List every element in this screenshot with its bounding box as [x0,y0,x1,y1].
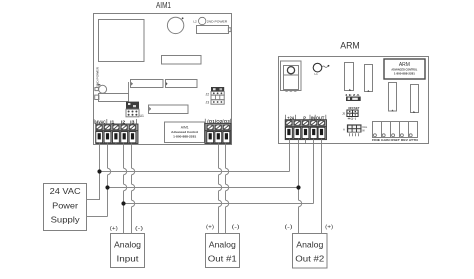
svg-text:U1: U1 [140,114,144,118]
svg-text:Analog: Analog [209,240,236,250]
wire I2 to Analog Input (+) [124,145,127,234]
terminal TB1 I1 [112,125,119,143]
svg-text:2ND POWER: 2ND POWER [95,67,99,87]
svg-text:24 VAC: 24 VAC [50,186,81,196]
transistor Q1 heatsink [281,61,302,91]
svg-text:J2: J2 [206,92,210,96]
junction dot D3 [121,201,125,205]
svg-text:ADVANCED CONTROL: ADVANCED CONTROL [391,67,417,71]
junction dot D1 [97,169,101,173]
relay K3 horizontal [166,80,198,88]
trace to U1 [128,82,130,93]
terminal TB3 P [302,120,309,138]
wire O3 to Analog Out 1 (-) [226,145,229,234]
terminal TB3 IN [310,120,317,138]
svg-text:Supply: Supply [51,215,81,225]
terminal TB3 OUT [318,120,325,138]
label box AIM1 Advanced Control [165,122,205,143]
LED L1 [313,63,322,72]
svg-text:Advanced Control: Advanced Control [171,130,198,134]
wire 24VAC-N to power supply with hop [87,145,111,217]
transistor Q1 [284,66,299,90]
terminal block TB1 [96,124,138,144]
svg-text:Analog: Analog [296,240,323,250]
wire I3 to Analog Input (-) [132,145,135,234]
terminal block TB3 [285,120,326,140]
svg-text:2ND POWER: 2ND POWER [207,20,228,24]
svg-text:Power: Power [52,200,78,210]
terminal TB2 O2 [215,125,222,143]
relay RY3 vertical [389,83,397,112]
wire 24VAC line1 horizontal [100,171,290,173]
wire 24VAC-L to power supply [87,145,100,200]
relay K2 horizontal [131,80,164,88]
junction dot D4 [296,185,300,189]
DIP switch S1 [346,97,361,102]
wire stubs AIM1 terminals [100,143,226,145]
svg-text:AIM1: AIM1 [156,1,171,10]
terminal TB3 GND [285,120,292,138]
box Analog Input [111,234,145,268]
box Analog Out #2 [293,234,328,269]
wire ARM GND drop [289,144,291,172]
svg-text:Out #2: Out #2 [295,254,324,264]
wire 24VAC line2 horizontal [108,187,299,189]
jumper J5 [347,110,358,117]
wire stubs ARM terminals [290,139,322,144]
svg-text:Analog: Analog [114,240,141,250]
capacitor C2 [99,85,107,93]
svg-text:J5: J5 [342,112,346,116]
svg-text:(+): (+) [206,225,214,231]
wire signal line3 horizontal [124,203,314,205]
wire ARM IN drop [313,144,315,204]
svg-text:A: A [343,128,345,132]
svg-text:1-800-888-2281: 1-800-888-2281 [173,135,196,139]
terminal TB1 I2 [121,125,128,143]
box 24 VAC Power Supply [44,184,87,231]
jumper header U1 [126,102,139,117]
svg-text:ARM: ARM [399,62,410,68]
relay RY2 vertical [365,65,373,92]
jumper J6 [347,124,362,132]
AIM1 board outline [94,14,232,145]
junction dot D2 [105,185,109,189]
svg-text:J3: J3 [206,100,210,104]
relay RY1 vertical [345,63,354,91]
svg-text:AIM1: AIM1 [181,126,189,130]
jumper header J2 J3 [211,87,224,104]
IC big square [99,20,145,62]
svg-text:OFFSET: OFFSET [348,106,359,110]
terminal block TB2 [205,123,231,143]
terminal TB1 24VAC-N [104,125,111,143]
svg-text:Input: Input [117,254,140,264]
svg-text:ARM: ARM [340,40,360,51]
svg-text:(+): (+) [325,225,333,231]
svg-text:(-): (-) [135,226,144,232]
wire ARM +24 to Analog Out 2 (-) with hop [299,144,302,234]
svg-text:(-): (-) [232,225,241,231]
terminal TB1 I3 [129,125,136,143]
trimpot bank [373,122,418,138]
label box ARM Advanced Control [384,59,425,79]
terminal TB3 +24 [294,120,301,138]
svg-text:(+): (+) [110,226,118,232]
relay K1 horizontal [197,26,229,34]
terminal TB2 O1 [207,125,214,143]
capacitor C3 horizontal [99,94,129,102]
terminal TB2 O3 [223,125,230,143]
svg-text:1-800-888-2281: 1-800-888-2281 [394,72,416,76]
terminal TB1 24VAC-L [96,125,103,143]
LED L2 [199,17,206,24]
relay RY4 vertical [411,85,419,113]
svg-text:L2: L2 [193,20,197,24]
svg-text:L1: L1 [315,72,319,76]
capacitor C1 [167,17,183,33]
svg-text:Out #1: Out #1 [208,254,237,264]
svg-text:(-): (-) [285,225,294,231]
wire ARM OUT to Analog Out 2 (+) [321,144,323,234]
wire O2 to Analog Out 1 (+) [219,145,222,234]
svg-text:#(|-): #(|-) [348,116,357,120]
resistor network RN1 [162,56,202,65]
relay K4 horizontal [149,105,189,114]
svg-text:FINE GAIN OSET REV ATTN: FINE GAIN OSET REV ATTN [372,138,418,142]
box Analog Out #1 [206,234,240,268]
ARM board outline [279,57,429,144]
